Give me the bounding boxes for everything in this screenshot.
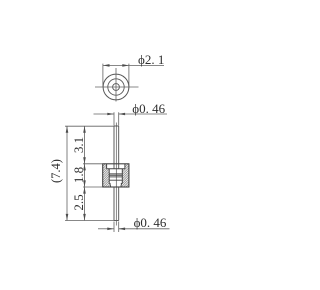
top view horizontal centerline xyxy=(95,86,139,88)
arrow down (7.4) xyxy=(66,214,69,221)
svg-text:ϕ0. 46: ϕ0. 46 xyxy=(134,215,167,230)
extension line pin bottom level xyxy=(65,220,117,222)
top view inner circle (pin) xyxy=(113,84,120,91)
dimension line phi 0.46 top right leader xyxy=(119,113,168,115)
front view pin lower right edge xyxy=(118,187,120,221)
extension line pin right edge (phi 0.46 bottom) xyxy=(118,222,120,233)
arrow right-pointing (phi 0.46 bottom) xyxy=(107,228,114,231)
dimension line phi 0.46 bottom left tail xyxy=(98,228,114,230)
arrow right-pointing (phi 0.46 top) xyxy=(107,113,114,116)
top view vertical centerline xyxy=(115,68,117,102)
dimension line phi 0.46 bottom right leader xyxy=(119,228,170,230)
extension line pin left edge (phi 0.46 bottom) xyxy=(113,222,115,233)
recess left wall xyxy=(106,164,108,169)
extension line body top level xyxy=(83,163,103,165)
dimension line phi 0.46 top left tail xyxy=(94,113,114,115)
collar shoulder left xyxy=(109,182,110,184)
lower step right wall xyxy=(120,183,123,187)
arrow left-pointing (phi 0.46 top) xyxy=(119,113,126,116)
pin collar right wall xyxy=(121,169,123,184)
extension line left tangent (phi 2.1) xyxy=(102,64,104,88)
top view middle circle xyxy=(108,79,124,95)
collar shoulder right xyxy=(121,182,123,184)
recess floor xyxy=(107,168,125,170)
front view pin top cap xyxy=(114,125,119,127)
top view outer circle (body, phi 2.1) xyxy=(103,74,129,100)
collar ring line 4 xyxy=(109,179,122,181)
lower step left wall xyxy=(109,183,112,187)
body outline xyxy=(103,164,129,187)
front view pin lower left edge xyxy=(113,187,115,221)
svg-text:ϕ2. 1: ϕ2. 1 xyxy=(138,52,164,67)
collar ring line 1 xyxy=(109,173,122,175)
arrow up (2.5) at body bottom xyxy=(83,187,86,194)
front view pin center axis line xyxy=(115,123,117,226)
extension line right tangent (phi 2.1) xyxy=(128,64,130,88)
dimension line phi 2.1 xyxy=(103,64,164,66)
arrow right (phi 2.1) xyxy=(122,64,129,67)
svg-text:ϕ0. 46: ϕ0. 46 xyxy=(132,101,165,116)
hatched section left wall xyxy=(103,164,111,187)
extension line pin right edge (phi 0.46 top) xyxy=(118,112,120,125)
front view pin bottom cap xyxy=(114,220,119,222)
dimension line (7.4) overall xyxy=(66,126,68,220)
hatched section right wall xyxy=(121,164,129,187)
extension line pin top level xyxy=(65,125,114,127)
extension line pin left edge (phi 0.46 top) xyxy=(113,112,115,125)
svg-text:2.5: 2.5 xyxy=(71,194,86,210)
pin collar left wall xyxy=(108,169,110,184)
recess right wall xyxy=(124,164,126,169)
svg-text:3.1: 3.1 xyxy=(71,137,86,153)
arrow up top (3.1) xyxy=(83,126,86,133)
arrow down bottom (2.5) xyxy=(83,214,86,221)
svg-text:(7.4): (7.4) xyxy=(49,159,63,183)
collar ring line 3 xyxy=(109,176,122,178)
arrow left-pointing (phi 0.46 bottom) xyxy=(119,228,126,231)
extension line body bottom level xyxy=(83,186,103,188)
arrow down (1.8) at body bottom xyxy=(83,180,86,187)
arrow down (3.1) at body top xyxy=(83,157,86,164)
collar ring line 2 xyxy=(109,174,122,176)
arrow left (phi 2.1) xyxy=(103,64,110,67)
arrow up (7.4) xyxy=(66,126,69,133)
dimension line segments 3.1 / 1.8 / 2.5 xyxy=(84,126,86,220)
svg-text:1.8: 1.8 xyxy=(71,167,86,183)
front view pin upper left edge xyxy=(113,126,115,169)
arrow up (1.8) at body top xyxy=(83,164,86,171)
front view pin upper right edge xyxy=(118,126,120,169)
